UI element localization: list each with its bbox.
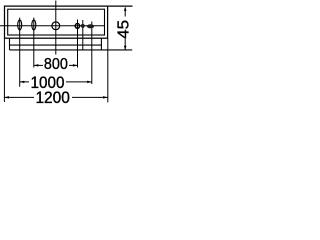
horizontal centerline <box>0 25 104 27</box>
lamp tube top line <box>10 44 102 46</box>
1000 dim line <box>20 81 92 83</box>
800 dim right arrow <box>73 64 78 67</box>
1000 dim left arrow <box>20 81 25 84</box>
svg-text:1200: 1200 <box>35 89 70 107</box>
right knob A <box>75 24 79 29</box>
1000 dim right arrow <box>87 81 92 84</box>
fixture outer body <box>5 6 108 38</box>
1200 right extension line <box>107 38 109 102</box>
45 dim upper arrow <box>124 8 126 17</box>
vertical centerline <box>55 1 57 55</box>
800 dim label <box>43 57 69 69</box>
lamp socket second extension line <box>33 18 35 68</box>
lamp socket second oval <box>32 20 36 30</box>
left lamp holder <box>9 39 11 50</box>
svg-text:45: 45 <box>114 20 132 39</box>
1200 dim left arrow <box>4 96 9 99</box>
right capsule extension line <box>91 22 93 85</box>
lamp socket left oval <box>18 20 22 30</box>
1200 dim line <box>4 96 107 98</box>
1200 dim right arrow <box>103 96 108 99</box>
1200 dim label <box>34 90 72 104</box>
lamp tube bottom line / 45 dim extension <box>10 49 133 51</box>
45 dim top extension line <box>108 5 133 7</box>
right capsule <box>87 24 94 28</box>
right knob B stub line <box>82 20 84 50</box>
1200 left extension line <box>3 38 5 102</box>
800 dim line <box>34 64 78 66</box>
800 dim left arrow <box>34 64 39 67</box>
svg-text:800: 800 <box>44 56 68 73</box>
right lamp holder <box>100 39 102 50</box>
1000 dim label <box>29 75 66 89</box>
center mounting hole circle <box>52 22 60 30</box>
fixture inner body <box>8 9 105 35</box>
right knob A extension line <box>77 20 79 68</box>
right knob B <box>81 24 85 28</box>
45 dim lower arrow <box>124 39 126 50</box>
lamp socket left extension line <box>19 18 21 87</box>
